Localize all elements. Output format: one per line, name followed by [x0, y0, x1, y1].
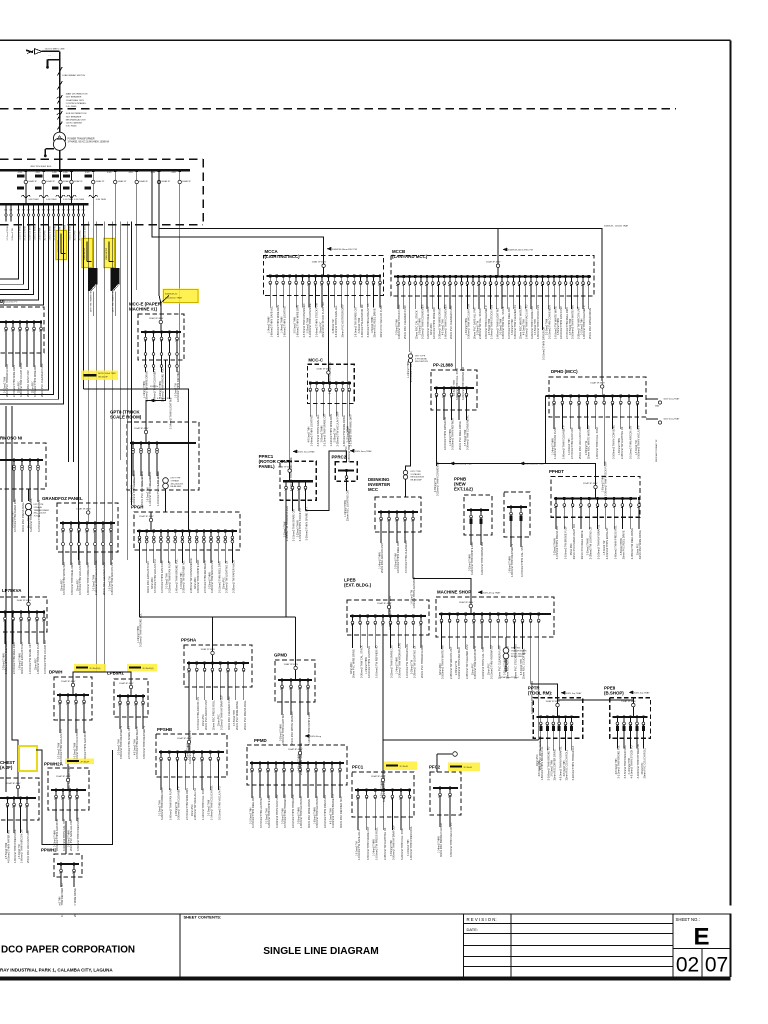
svg-text:4-3/0: 4-3/0	[36, 172, 40, 174]
svg-text:3-50mm2 THHN: 3-50mm2 THHN	[280, 724, 282, 741]
svg-text:1-60mm2 THHN PRESS ROL: 1-60mm2 THHN PRESS ROL	[613, 525, 617, 559]
svg-text:2-38mm2 TW AIRCON UNIT: 2-38mm2 TW AIRCON UNIT	[576, 306, 580, 339]
svg-text:2-5.5mm2 THW: 2-5.5mm2 THW	[295, 316, 297, 333]
svg-text:3-30mm2 THW: 3-30mm2 THW	[395, 553, 397, 569]
svg-text:1-60mm2 THHN BROKE PUL: 1-60mm2 THHN BROKE PUL	[174, 559, 178, 593]
svg-text:3-100mm2 THH: 3-100mm2 THH	[181, 572, 183, 589]
svg-text:3-50mm2 THHN REEL DRIV: 3-50mm2 THHN REEL DRIV	[70, 562, 74, 595]
svg-text:150AT 3P 480V: 150AT 3P 480V	[6, 782, 21, 785]
svg-text:32mm RSC EXHAUST FAN: 32mm RSC EXHAUST FAN	[146, 561, 150, 593]
svg-text:3-30mm2 THW: 3-30mm2 THW	[391, 840, 393, 856]
svg-text:WELDING: WELDING	[511, 648, 521, 650]
svg-text:1-8.0mm2 TW: 1-8.0mm2 TW	[175, 383, 177, 398]
svg-text:4-8.0mm2 THHN DRYER DR: 4-8.0mm2 THHN DRYER DR	[443, 417, 447, 450]
svg-text:1-14mm2 THHN: 1-14mm2 THHN	[397, 657, 399, 674]
svg-text:150AT 3P 480V: 150AT 3P 480V	[17, 599, 32, 602]
svg-text:PPMD: PPMD	[254, 738, 267, 743]
svg-text:3-5.5mm2 THW CLEANER P: 3-5.5mm2 THW CLEANER P	[404, 540, 408, 573]
svg-text:3-30mm2 THW: 3-30mm2 THW	[512, 319, 514, 335]
svg-text:150AT 3P 480V: 150AT 3P 480V	[546, 700, 561, 703]
svg-text:3-100mm2 THHN HYDRAPUL: 3-100mm2 THHN HYDRAPUL	[636, 743, 640, 778]
svg-text:MCC-C: MCC-C	[308, 358, 323, 363]
svg-text:4-8.0mm2 RSC: 4-8.0mm2 RSC	[157, 398, 172, 400]
svg-text:3 PHASE: 3 PHASE	[171, 479, 180, 482]
svg-text:3-100mm2 THH: 3-100mm2 THH	[581, 318, 583, 335]
svg-text:20mm PVC: 20mm PVC	[320, 321, 322, 333]
svg-text:20mm PVC REEL DRIVE: 20mm PVC REEL DRIVE	[580, 530, 584, 559]
svg-text:2F 38x4F(4): 2F 38x4F(4)	[143, 668, 154, 670]
svg-text:600AF 3P: 600AF 3P	[162, 180, 171, 183]
svg-text:150AT 3P 480V: 150AT 3P 480V	[149, 317, 164, 320]
svg-text:4-8.0mm2 THH: 4-8.0mm2 THH	[616, 758, 618, 774]
svg-text:3-22mm2 THHN: 3-22mm2 THHN	[554, 538, 556, 555]
svg-text:25mm RSC: 25mm RSC	[571, 543, 573, 555]
svg-text:DRY TYPE TRANSFORMER: DRY TYPE TRANSFORMER	[90, 287, 93, 312]
svg-text:20mm PVC: 20mm PVC	[642, 762, 644, 774]
svg-text:2-5.5mm2 THW: 2-5.5mm2 THW	[552, 759, 554, 776]
svg-text:1-14mm2 THHN: 1-14mm2 THHN	[438, 836, 440, 853]
svg-text:1-8.0mm2 TW HYDRAPULPE: 1-8.0mm2 TW HYDRAPULPE	[405, 644, 409, 678]
svg-text:LPB5H1: LPB5H1	[107, 671, 124, 676]
svg-text:1-60mm2 THHN LIGHTING: 1-60mm2 THHN LIGHTING	[496, 308, 500, 339]
svg-text:1-14mm2 THHN LIGHTING: 1-14mm2 THHN LIGHTING	[169, 398, 173, 429]
svg-text:GPMD: GPMD	[274, 653, 287, 658]
svg-text:3-5.5mm2 THW: 3-5.5mm2 THW	[4, 376, 6, 393]
svg-text:3-30mm2 THW: 3-30mm2 THW	[396, 319, 398, 335]
svg-text:3-30mm2 THW: 3-30mm2 THW	[359, 317, 361, 333]
svg-text:150AT 3P 480V: 150AT 3P 480V	[486, 261, 501, 264]
svg-text:3-3.5mm2 THHN SAVE-ALL: 3-3.5mm2 THHN SAVE-ALL	[316, 414, 320, 446]
svg-text:2-5.5mm2 THW: 2-5.5mm2 THW	[547, 318, 549, 335]
svg-text:2-5.5mm2 THW: 2-5.5mm2 THW	[6, 842, 8, 859]
svg-text:MECHANICAL UNIT: MECHANICAL UNIT	[66, 118, 87, 121]
svg-text:2-5.5mm2 THW REEL DRIV: 2-5.5mm2 THW REEL DRIV	[565, 307, 569, 339]
svg-text:GKT BREAKER: GKT BREAKER	[66, 115, 82, 118]
svg-text:150AT 3P 480V: 150AT 3P 480V	[371, 775, 386, 778]
svg-text:1-14mm2 THHN: 1-14mm2 THHN	[379, 552, 381, 569]
svg-text:1-14mm2 THHN: 1-14mm2 THHN	[374, 839, 376, 856]
svg-text:4-3/0: 4-3/0	[129, 172, 133, 174]
svg-text:3-22mm2 THHN HYDRAPULP: 3-22mm2 THHN HYDRAPULP	[571, 745, 575, 780]
svg-text:CB IN 7-AM/368: CB IN 7-AM/368	[66, 122, 83, 125]
svg-text:1-14mm2 THHN: 1-14mm2 THHN	[282, 316, 284, 333]
svg-text:PPWH2: PPWH2	[41, 848, 57, 853]
svg-text:2-5.5mm2 THW REEL DRIV: 2-5.5mm2 THW REEL DRIV	[217, 561, 221, 593]
svg-text:25mm RSC DRYER DRIVE: 25mm RSC DRYER DRIVE	[588, 307, 592, 339]
svg-text:3-3.5mm2 THHN DRYER DR: 3-3.5mm2 THHN DRYER DR	[542, 327, 546, 360]
svg-text:1-8.0mm2 TW REFINER NO: 1-8.0mm2 TW REFINER NO	[375, 645, 379, 678]
svg-text:1-14mm2 THHN: 1-14mm2 THHN	[20, 225, 22, 240]
svg-text:3-5.5mm2 THW: 3-5.5mm2 THW	[93, 574, 95, 591]
svg-text:3-100mm2 THHN BROKE PU: 3-100mm2 THHN BROKE PU	[547, 746, 551, 780]
svg-text:3-22mm2 THHN: 3-22mm2 THHN	[469, 554, 471, 571]
svg-text:3-50mm2 THHN: 3-50mm2 THHN	[322, 425, 324, 442]
svg-text:3-5.5mm2 THW: 3-5.5mm2 THW	[465, 429, 467, 446]
svg-text:2-38mm2 TW CONVENIENCE: 2-38mm2 TW CONVENIENCE	[189, 558, 193, 593]
svg-text:1-14mm2 THHN: 1-14mm2 THHN	[138, 626, 140, 643]
svg-text:EXT.1&2): EXT.1&2)	[454, 487, 473, 492]
svg-text:1-60mm2 THHN PRESS ROL: 1-60mm2 THHN PRESS ROL	[13, 829, 17, 863]
svg-text:1-8.0mm2 TW: 1-8.0mm2 TW	[40, 228, 42, 241]
svg-text:3-3.5mm2 THH: 3-3.5mm2 THH	[266, 808, 268, 824]
svg-text:32mm RSC: 32mm RSC	[18, 381, 20, 393]
svg-text:2-38mm2 TW: 2-38mm2 TW	[12, 228, 14, 240]
svg-text:4-8.0mm2 THH: 4-8.0mm2 THH	[134, 739, 136, 755]
svg-text:3-3.5mm2 THH: 3-3.5mm2 THH	[118, 739, 120, 755]
svg-text:TRANSFORMER: TRANSFORMER	[34, 509, 50, 512]
svg-text:32mm RSC WHITE WATER P: 32mm RSC WHITE WATER P	[519, 305, 523, 339]
svg-text:25mm RSC FAN PUMP: 25mm RSC FAN PUMP	[26, 370, 30, 397]
svg-text:3-30mm2 THW CAL. STACK: 3-30mm2 THW CAL. STACK	[359, 645, 363, 678]
svg-text:SINGLE LINE DIAGRAM: SINGLE LINE DIAGRAM	[263, 946, 378, 957]
svg-text:500MCM-40mm RSC PM: 500MCM-40mm RSC PM	[332, 249, 357, 251]
svg-text:3-50mm2 THHN: 3-50mm2 THHN	[3, 653, 5, 670]
svg-text:4-8.0mm2 THHN PRESS RO: 4-8.0mm2 THHN PRESS RO	[323, 795, 327, 828]
svg-text:500V 4sq TRAY: 500V 4sq TRAY	[566, 692, 582, 695]
svg-text:1-14mm2 THHN: 1-14mm2 THHN	[450, 429, 452, 446]
svg-text:4-8.0mm2 THHN AGITATOR: 4-8.0mm2 THHN AGITATOR	[83, 730, 87, 763]
svg-text:(A 2F): (A 2F)	[0, 765, 13, 770]
svg-text:3-50mm2 THHN: 3-50mm2 THHN	[588, 538, 590, 555]
svg-text:20mm PVC CLEANER PUMP: 20mm PVC CLEANER PUMP	[449, 305, 453, 339]
svg-text:2-38mm2 TW: 2-38mm2 TW	[412, 659, 414, 674]
svg-text:(TOOL RM):: (TOOL RM):	[528, 691, 553, 696]
svg-text:(EXT. BLDG.): (EXT. BLDG.)	[344, 583, 372, 588]
svg-text:20mm PVC: 20mm PVC	[219, 714, 221, 726]
svg-text:3-3.5mm2 THHN COUCH RO: 3-3.5mm2 THHN COUCH RO	[43, 640, 47, 674]
svg-text:32mm RSC WIRE DRIVE: 32mm RSC WIRE DRIVE	[307, 799, 311, 828]
svg-text:3-100mm2 THHN HYDRAPUL: 3-100mm2 THHN HYDRAPUL	[597, 524, 601, 559]
svg-text:4-8.0mm2 THHN: 4-8.0mm2 THHN	[158, 470, 160, 486]
svg-text:32mm RSC CLEANER PUMP: 32mm RSC CLEANER PUMP	[227, 696, 231, 730]
svg-text:PPRC2: PPRC2	[332, 455, 347, 460]
svg-text:3-50mm2 THHN SPARE CKT: 3-50mm2 THHN SPARE CKT	[305, 507, 309, 541]
svg-text:PANEL): PANEL)	[259, 464, 276, 469]
svg-text:1-60mm2 THHN CAL. STAC: 1-60mm2 THHN CAL. STAC	[595, 427, 599, 459]
svg-text:1-14mm2 THHN: 1-14mm2 THHN	[408, 361, 410, 378]
svg-text:2-38mm2 TW PAPER MACH: 2-38mm2 TW PAPER MACH	[232, 560, 236, 593]
svg-text:20mm PVC: 20mm PVC	[489, 663, 491, 675]
svg-text:2-5.5mm2 THW WIRE DRIV: 2-5.5mm2 THW WIRE DRIV	[12, 365, 16, 397]
svg-text:500V 4osq TRAY: 500V 4osq TRAY	[664, 398, 680, 401]
svg-text:150AT 3P 480V: 150AT 3P 480V	[284, 663, 299, 666]
svg-text:1-60mm2 THHN: 1-60mm2 THHN	[131, 485, 133, 502]
svg-text:RAY INDUSTRIAL PARK 1, CALAMBA: RAY INDUSTRIAL PARK 1, CALAMBA CITY, LAG…	[0, 968, 113, 973]
svg-text:GRANDFOZ PANEL: GRANDFOZ PANEL	[42, 496, 83, 501]
svg-text:20mm PVC VACUUM PUMP: 20mm PVC VACUUM PUMP	[379, 304, 383, 337]
svg-text:600AF 3P: 600AF 3P	[74, 180, 83, 183]
svg-text:1-8.0mm2 TW: 1-8.0mm2 TW	[604, 540, 606, 555]
svg-text:2F 38x4F: 2F 38x4F	[464, 767, 473, 769]
svg-text:3-50mm2 THHN: 3-50mm2 THHN	[621, 538, 623, 555]
svg-text:32mm RSC: 32mm RSC	[152, 577, 154, 589]
svg-text:2-5.5mm2 THW SPARE CKT: 2-5.5mm2 THW SPARE CKT	[292, 508, 296, 541]
svg-text:4-3/0: 4-3/0	[63, 172, 67, 174]
svg-text:PPSHA: PPSHA	[181, 638, 197, 643]
svg-text:4-8.0mm2 THH: 4-8.0mm2 THH	[521, 659, 523, 675]
svg-text:GB 500/4F: GB 500/4F	[98, 376, 108, 378]
svg-text:1-60mm2 THHN WIRE DRIV: 1-60mm2 THHN WIRE DRIV	[86, 562, 90, 595]
svg-text:BE AB 480F: BE AB 480F	[411, 478, 423, 481]
svg-text:3-5.5mm2 THW PAPER MAC: 3-5.5mm2 THW PAPER MAC	[623, 745, 627, 779]
svg-text:POWER TRANSFORMER: POWER TRANSFORMER	[68, 137, 95, 140]
svg-text:SHEET CONTENTS:: SHEET CONTENTS:	[184, 915, 222, 920]
svg-text:20mm PVC CLEANER PUMP: 20mm PVC CLEANER PUMP	[40, 363, 44, 397]
svg-text:1-14mm2 THHN WIRE DRIV: 1-14mm2 THHN WIRE DRIV	[329, 413, 333, 446]
svg-text:3-3.5mm2 THHN FAN PUMP: 3-3.5mm2 THHN FAN PUMP	[160, 560, 164, 593]
svg-text:FEED AROT READY 3P: FEED AROT READY 3P	[655, 439, 658, 462]
svg-text:150AT 3P 480V: 150AT 3P 480V	[56, 775, 71, 778]
svg-text:3-100mm2 THH: 3-100mm2 THH	[629, 758, 631, 775]
svg-text:PFC1: PFC1	[352, 765, 364, 770]
svg-text:1-8.0mm2 TW: 1-8.0mm2 TW	[109, 576, 111, 591]
svg-text:500V-4/osq: 500V-4/osq	[310, 736, 322, 738]
svg-text:3-5.5mm2 THW AIRCON UN: 3-5.5mm2 THW AIRCON UN	[628, 426, 632, 459]
svg-text:20mm PVC AGITATOR DRIV: 20mm PVC AGITATOR DRIV	[340, 304, 344, 337]
svg-text:3 PHASE: 3 PHASE	[34, 506, 43, 509]
svg-text:1-8.0mm2 TW SPARE CKT: 1-8.0mm2 TW SPARE CKT	[28, 643, 32, 674]
svg-text:3-50mm2 THHN SPARE CKT: 3-50mm2 THHN SPARE CKT	[366, 826, 370, 860]
svg-text:5KVA 3 Abw/T0.Bled: 5KVA 3 Abw/T0.Bled	[500, 676, 518, 679]
svg-text:3-100mm2 THHN FAN PUMP: 3-100mm2 THHN FAN PUMP	[275, 794, 279, 828]
svg-text:1-8.0mm2 TW: 1-8.0mm2 TW	[356, 841, 358, 856]
svg-text:2-38mm2 TW LIGHTING CK: 2-38mm2 TW LIGHTING CK	[383, 827, 387, 860]
svg-text:4-3/0: 4-3/0	[107, 172, 111, 174]
svg-text:3-22mm2 THHN: 3-22mm2 THHN	[297, 520, 299, 537]
svg-text:3-50mm2 THHN: 3-50mm2 THHN	[420, 318, 422, 335]
svg-text:SHEET NO.:: SHEET NO.:	[676, 917, 700, 922]
svg-text:500V-4/o: 500V-4/o	[150, 386, 159, 388]
svg-text:KWH METER: KWH METER	[106, 247, 108, 259]
svg-text:3-3.5mm2 THHN CAL. STA: 3-3.5mm2 THHN CAL. STA	[520, 546, 524, 577]
svg-text:4-8.0mm2 THH: 4-8.0mm2 THH	[524, 319, 526, 335]
svg-text:3-50mm2 THHN PRESS ROL: 3-50mm2 THHN PRESS ROL	[76, 817, 80, 851]
svg-text:3-22mm2 THHN: 3-22mm2 THHN	[209, 572, 211, 589]
svg-text:150AT 3P 480V: 150AT 3P 480V	[316, 367, 331, 370]
svg-text:1-14mm2 THHN: 1-14mm2 THHN	[552, 438, 554, 455]
svg-text:75 KVA: 75 KVA	[34, 515, 41, 518]
svg-text:2-38mm2 TW: 2-38mm2 TW	[333, 319, 335, 334]
svg-text:20mm PVC: 20mm PVC	[192, 804, 194, 816]
svg-text:TRANSFORMER: TRANSFORMER	[511, 649, 527, 652]
svg-text:2-38mm2 TW REEL DRIVE: 2-38mm2 TW REEL DRIVE	[630, 528, 634, 559]
svg-text:4-8.0mm2 THHN HYDRAPUL: 4-8.0mm2 THHN HYDRAPUL	[291, 794, 295, 828]
svg-text:1-8.0mm2 TW: 1-8.0mm2 TW	[411, 589, 413, 604]
svg-text:3-100mm2 THHN: 3-100mm2 THHN	[30, 224, 32, 240]
svg-text:DRY TYPE: DRY TYPE	[34, 504, 45, 506]
svg-text:1-60mm2 THHN: 1-60mm2 THHN	[619, 438, 621, 455]
svg-text:1-8.0mm2 TW WHITE WATE: 1-8.0mm2 TW WHITE WATE	[553, 306, 557, 339]
svg-text:500V-4/osq TRAY: 500V-4/osq TRAY	[483, 591, 501, 594]
svg-text:BE AB 2400F: BE AB 2400F	[511, 655, 524, 658]
svg-text:150AT 3P 480V: 150AT 3P 480V	[459, 601, 474, 604]
svg-text:20mm PVC: 20mm PVC	[224, 577, 226, 589]
svg-text:3-5.5mm2 THW: 3-5.5mm2 THW	[500, 318, 502, 335]
svg-text:500V 4osq TRAY: 500V 4osq TRAY	[298, 451, 315, 454]
svg-text:20mm PVC: 20mm PVC	[75, 230, 77, 241]
svg-text:3-50mm2 THHN CLEANER P: 3-50mm2 THHN CLEANER P	[484, 305, 488, 339]
svg-text:600AF 3P: 600AF 3P	[182, 180, 191, 183]
svg-text:25mm RSC VACUUM PUMP: 25mm RSC VACUUM PUMP	[26, 830, 30, 863]
svg-text:TOTAL 300 AMP: TOTAL 300 AMP	[511, 652, 527, 655]
svg-text:3-50mm2 THHN VACUUM PU: 3-50mm2 THHN VACUUM PU	[449, 823, 453, 857]
svg-text:3-100mm2 THH: 3-100mm2 THH	[408, 839, 410, 856]
svg-text:DCO PAPER CORPORATION: DCO PAPER CORPORATION	[1, 945, 135, 956]
svg-text:32mm RSC PRESS ROLL: 32mm RSC PRESS ROLL	[21, 502, 25, 532]
svg-text:3-22mm2 THHN DRYER DRI: 3-22mm2 THHN DRYER DRI	[461, 367, 465, 400]
svg-text:150AT 3P 480V: 150AT 3P 480V	[377, 602, 392, 605]
svg-text:32mm RSC: 32mm RSC	[351, 662, 353, 674]
svg-text:DPHD (MCC): DPHD (MCC)	[551, 369, 578, 374]
svg-text:3-50mm2 THHN: 3-50mm2 THHN	[298, 807, 300, 824]
svg-text:32mm RSC: 32mm RSC	[195, 577, 197, 589]
svg-text:3-5.5mm2 THW AIRCON UN: 3-5.5mm2 THW AIRCON UN	[196, 697, 200, 730]
svg-text:4-3/0 THHN: 4-3/0 THHN	[74, 199, 85, 201]
svg-text:4-8.0mm2 THH: 4-8.0mm2 THH	[443, 319, 445, 335]
svg-text:500MCM-4C: 500MCM-4C	[165, 294, 178, 296]
svg-text:1-14mm2 THHN STOCK PUM: 1-14mm2 THHN STOCK PUM	[315, 303, 319, 337]
svg-text:4-8.0mm2 THH: 4-8.0mm2 THH	[539, 760, 541, 776]
svg-text:1-14mm2 THHN: 1-14mm2 THHN	[345, 500, 347, 517]
svg-text:3-22mm2 THHN SPARE CKT: 3-22mm2 THHN SPARE CKT	[530, 305, 534, 339]
svg-text:480V 3PH 60HZ BUS: 480V 3PH 60HZ BUS	[30, 166, 52, 168]
svg-text:3-22mm2 THHN DRYER DRI: 3-22mm2 THHN DRYER DRI	[480, 542, 484, 575]
svg-text:2-38mm2 TW: 2-38mm2 TW	[435, 477, 437, 492]
svg-text:DRY TYPE: DRY TYPE	[171, 478, 182, 480]
svg-text:2-5.5mm2 THW: 2-5.5mm2 THW	[25, 226, 27, 240]
svg-text:PFC2: PFC2	[429, 765, 441, 770]
svg-text:600AF 3P: 600AF 3P	[46, 180, 55, 183]
svg-text:2-38mm2 TW: 2-38mm2 TW	[456, 660, 458, 675]
svg-text:1-14mm2 THHN: 1-14mm2 THHN	[366, 657, 368, 674]
svg-text:2-5.5mm2 THW SPARE CKT: 2-5.5mm2 THW SPARE CKT	[127, 726, 131, 759]
svg-text:LOAD BREAK SWITCH: LOAD BREAK SWITCH	[62, 74, 86, 77]
svg-text:CONTROL/SPARES: CONTROL/SPARES	[66, 102, 87, 105]
svg-text:2-5.5mm2 THW WIRE DRIV: 2-5.5mm2 THW WIRE DRIV	[185, 788, 189, 820]
svg-text:20mm PVC: 20mm PVC	[203, 714, 205, 726]
svg-text:3-5.5mm2 THW VACUUM PU: 3-5.5mm2 THW VACUUM PU	[218, 786, 222, 820]
svg-text:DATE:: DATE:	[467, 927, 478, 932]
svg-text:3-30mm2 THW EXHAUST FA: 3-30mm2 THW EXHAUST FA	[366, 303, 370, 337]
svg-text:150AT 3P 480V: 150AT 3P 480V	[201, 648, 216, 651]
svg-text:150AT 3P 480V: 150AT 3P 480V	[590, 381, 605, 384]
svg-text:2-38mm2 TW: 2-38mm2 TW	[335, 428, 337, 443]
svg-text:1-60mm2 THHN: 1-60mm2 THHN	[314, 807, 316, 824]
svg-text:MACHINE SHOP: MACHINE SHOP	[437, 590, 471, 595]
svg-text:E: E	[693, 924, 709, 951]
svg-text:150AT 3P 480V: 150AT 3P 480V	[312, 261, 327, 264]
svg-text:32mm RSC CAL. STACK: 32mm RSC CAL. STACK	[415, 310, 419, 339]
svg-text:3-100mm2 THH: 3-100mm2 THH	[348, 426, 350, 443]
svg-text:3-5.5mm2 THW LIGHTING: 3-5.5mm2 THW LIGHTING	[259, 797, 263, 828]
svg-text:MAIN DISTRIBUTION: MAIN DISTRIBUTION	[66, 93, 88, 96]
svg-text:1-14mm2 THHN: 1-14mm2 THHN	[144, 381, 146, 398]
svg-text:600AF 3P: 600AF 3P	[139, 180, 148, 183]
svg-text:25mm RSC CLEANER PUMP: 25mm RSC CLEANER PUMP	[102, 561, 106, 595]
svg-text:DRY TYPE: DRY TYPE	[411, 471, 422, 473]
svg-text:PPHDT: PPHDT	[549, 469, 564, 474]
svg-text:SCALE ROOM): SCALE ROOM)	[110, 415, 142, 420]
svg-text:MACHINE #1): MACHINE #1)	[129, 307, 158, 312]
svg-text:1-60mm2 THHN WIRE DRIV: 1-60mm2 THHN WIRE DRIV	[276, 304, 280, 337]
svg-text:1-60mm2 THHN: 1-60mm2 THHN	[50, 225, 52, 240]
svg-text:20mm PVC: 20mm PVC	[637, 543, 639, 555]
svg-text:3-3.5mm2 THH: 3-3.5mm2 THH	[234, 710, 236, 726]
svg-text:SUB DISTRIBUTION: SUB DISTRIBUTION	[66, 113, 87, 115]
svg-text:25mm RSC CLEANER PUMP: 25mm RSC CLEANER PUMP	[403, 305, 407, 339]
svg-text:DPWH: DPWH	[49, 670, 62, 675]
svg-text:1-8.0mm2 TW SPARE CKT: 1-8.0mm2 TW SPARE CKT	[353, 306, 357, 337]
svg-text:32mm RSC: 32mm RSC	[431, 323, 433, 335]
svg-text:480 3-1/2Gm PV: 480 3-1/2Gm PV	[1, 302, 18, 304]
svg-text:3-5.5mm2 THW: 3-5.5mm2 THW	[570, 318, 572, 335]
svg-text:G.E. FB&S: G.E. FB&S	[66, 126, 77, 128]
svg-text:32mm RSC: 32mm RSC	[61, 579, 63, 591]
svg-text:32mm RSC REFINER NO.2: 32mm RSC REFINER NO.2	[339, 796, 343, 828]
svg-text:2-38mm2 TW WIRE DRIVE: 2-38mm2 TW WIRE DRIVE	[438, 307, 442, 339]
svg-text:3-22mm2 THHN SPARE CKT: 3-22mm2 THHN SPARE CKT	[390, 644, 394, 678]
svg-text:1-60mm2 THHN: 1-60mm2 THHN	[466, 318, 468, 335]
svg-text:- -: - -	[49, 54, 51, 57]
svg-text:KWH METER: KWH METER	[84, 247, 86, 259]
svg-text:3-3.5mm2 THH: 3-3.5mm2 THH	[167, 573, 169, 589]
svg-text:2-38mm2 TW WIRE DRIVE: 2-38mm2 TW WIRE DRIVE	[342, 415, 346, 447]
svg-text:2-38mm2 TW: 2-38mm2 TW	[176, 801, 178, 816]
svg-text:4-8.0mm2 THHN: 4-8.0mm2 THHN	[142, 470, 144, 486]
svg-text:1-8.0mm2 TW: 1-8.0mm2 TW	[636, 440, 638, 455]
svg-text:150AT 3P 480V: 150AT 3P 480V	[139, 515, 154, 518]
svg-text:2F 38x4F(4): 2F 38x4F(4)	[90, 668, 101, 670]
svg-text:3-5.5mm2 THW: 3-5.5mm2 THW	[7, 226, 9, 240]
svg-text:3-100mm2 THHN CONVENIE: 3-100mm2 THHN CONVENIE	[612, 425, 616, 459]
svg-text:2-38mm2 TW: 2-38mm2 TW	[586, 440, 588, 455]
svg-text:600AF 3P: 600AF 3P	[28, 180, 37, 183]
svg-text:500V-100x50 TRAY: 500V-100x50 TRAY	[525, 463, 545, 466]
svg-text:REGULBGUM: REGULBGUM	[411, 477, 425, 479]
svg-text:500V 4sq TRAY: 500V 4sq TRAY	[634, 691, 650, 694]
svg-text:(LANYARD MCC): (LANYARD MCC)	[392, 254, 428, 259]
svg-text:25mm RSC: 25mm RSC	[150, 475, 152, 486]
svg-text:3-22mm2 THHN: 3-22mm2 THHN	[160, 381, 162, 398]
svg-text:2-5.5mm2 THW CONVENIEN: 2-5.5mm2 THW CONVENIEN	[302, 303, 306, 337]
svg-text:2-5.5mm2 THW REEL DRIV: 2-5.5mm2 THW REEL DRIV	[12, 642, 16, 674]
svg-text:DRY TYPE: DRY TYPE	[415, 356, 426, 358]
svg-text:25mm RSC VACUUM PUMP: 25mm RSC VACUUM PUMP	[578, 426, 582, 459]
svg-text:1-60mm2 THHN: 1-60mm2 THHN	[35, 225, 37, 240]
svg-text:1-14mm2 THHN CAL. STAC: 1-14mm2 THHN CAL. STAC	[201, 788, 205, 820]
svg-text:PP-2L888: PP-2L888	[433, 363, 453, 368]
svg-text:150AT 3P 480V: 150AT 3P 480V	[76, 507, 91, 510]
svg-text:2-38mm2 TW: 2-38mm2 TW	[477, 320, 479, 335]
svg-text:MCC: MCC	[368, 487, 379, 492]
svg-text:2F 38x4F: 2F 38x4F	[400, 766, 409, 768]
svg-text:20mm PVC CLEANER PUMP: 20mm PVC CLEANER PUMP	[497, 645, 501, 679]
svg-text:4-8.0mm2 THH: 4-8.0mm2 THH	[330, 808, 332, 824]
svg-text:100A/250AS 14KV: 100A/250AS 14KV	[66, 99, 85, 102]
svg-text:4-8.0mm2 THHN HYDRAPUL: 4-8.0mm2 THHN HYDRAPUL	[558, 746, 562, 780]
svg-text:4-3/0: 4-3/0	[18, 172, 22, 174]
svg-text:150AT 3P 480V: 150AT 3P 480V	[61, 680, 76, 683]
svg-text:20mm PVC HYDRAPULPER: 20mm PVC HYDRAPULPER	[420, 645, 424, 678]
svg-text:1-60mm2 THHN: 1-60mm2 THHN	[509, 556, 511, 573]
svg-text:150AT 3P 480V: 150AT 3P 480V	[134, 427, 149, 430]
svg-text:02: 02	[676, 954, 699, 977]
svg-text:225AT 3P 480V: 225AT 3P 480V	[583, 482, 598, 485]
svg-text:3-50mm2 THHN: 3-50mm2 THHN	[70, 225, 72, 240]
svg-text:1-8.0mm2 TW: 1-8.0mm2 TW	[147, 487, 149, 502]
svg-text:2-38mm2 TW CLEANER PUM: 2-38mm2 TW CLEANER PUM	[465, 645, 469, 679]
svg-text:25mm RSC WHITE WATER P: 25mm RSC WHITE WATER P	[290, 711, 294, 745]
